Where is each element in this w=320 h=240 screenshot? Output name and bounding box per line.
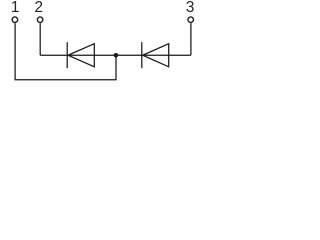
wire terminal 3 down to middle rail [190,23,192,55]
terminal 2 circle [37,17,43,23]
wire terminal 1 down, along bottom, up to junction [15,23,116,80]
svg-text:2: 2 [34,0,43,16]
svg-text:3: 3 [186,0,195,16]
junction node [114,53,119,58]
diode D1 triangle [68,44,94,67]
diode D1 cathode bar [66,42,68,68]
terminal 1 circle [12,17,18,23]
diode D2 triangle [143,44,169,67]
diode D2 cathode bar [141,42,143,68]
svg-text:1: 1 [11,0,20,16]
terminal 3 circle [188,17,194,23]
wire terminal 2 down to middle rail [39,23,41,55]
wire middle rail [40,54,191,56]
